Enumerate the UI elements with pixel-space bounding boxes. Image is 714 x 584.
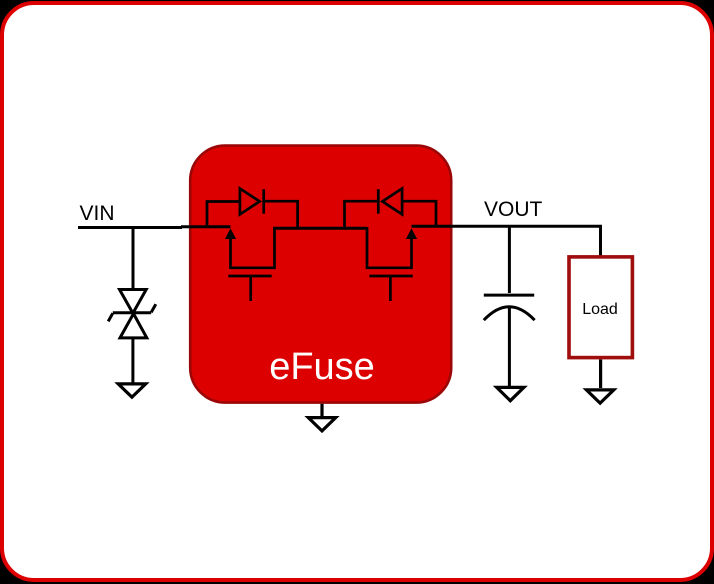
svg-text:Load: Load: [582, 301, 618, 318]
svg-text:VOUT: VOUT: [484, 198, 543, 221]
svg-text:VIN: VIN: [80, 202, 115, 225]
svg-text:eFuse: eFuse: [269, 346, 375, 388]
